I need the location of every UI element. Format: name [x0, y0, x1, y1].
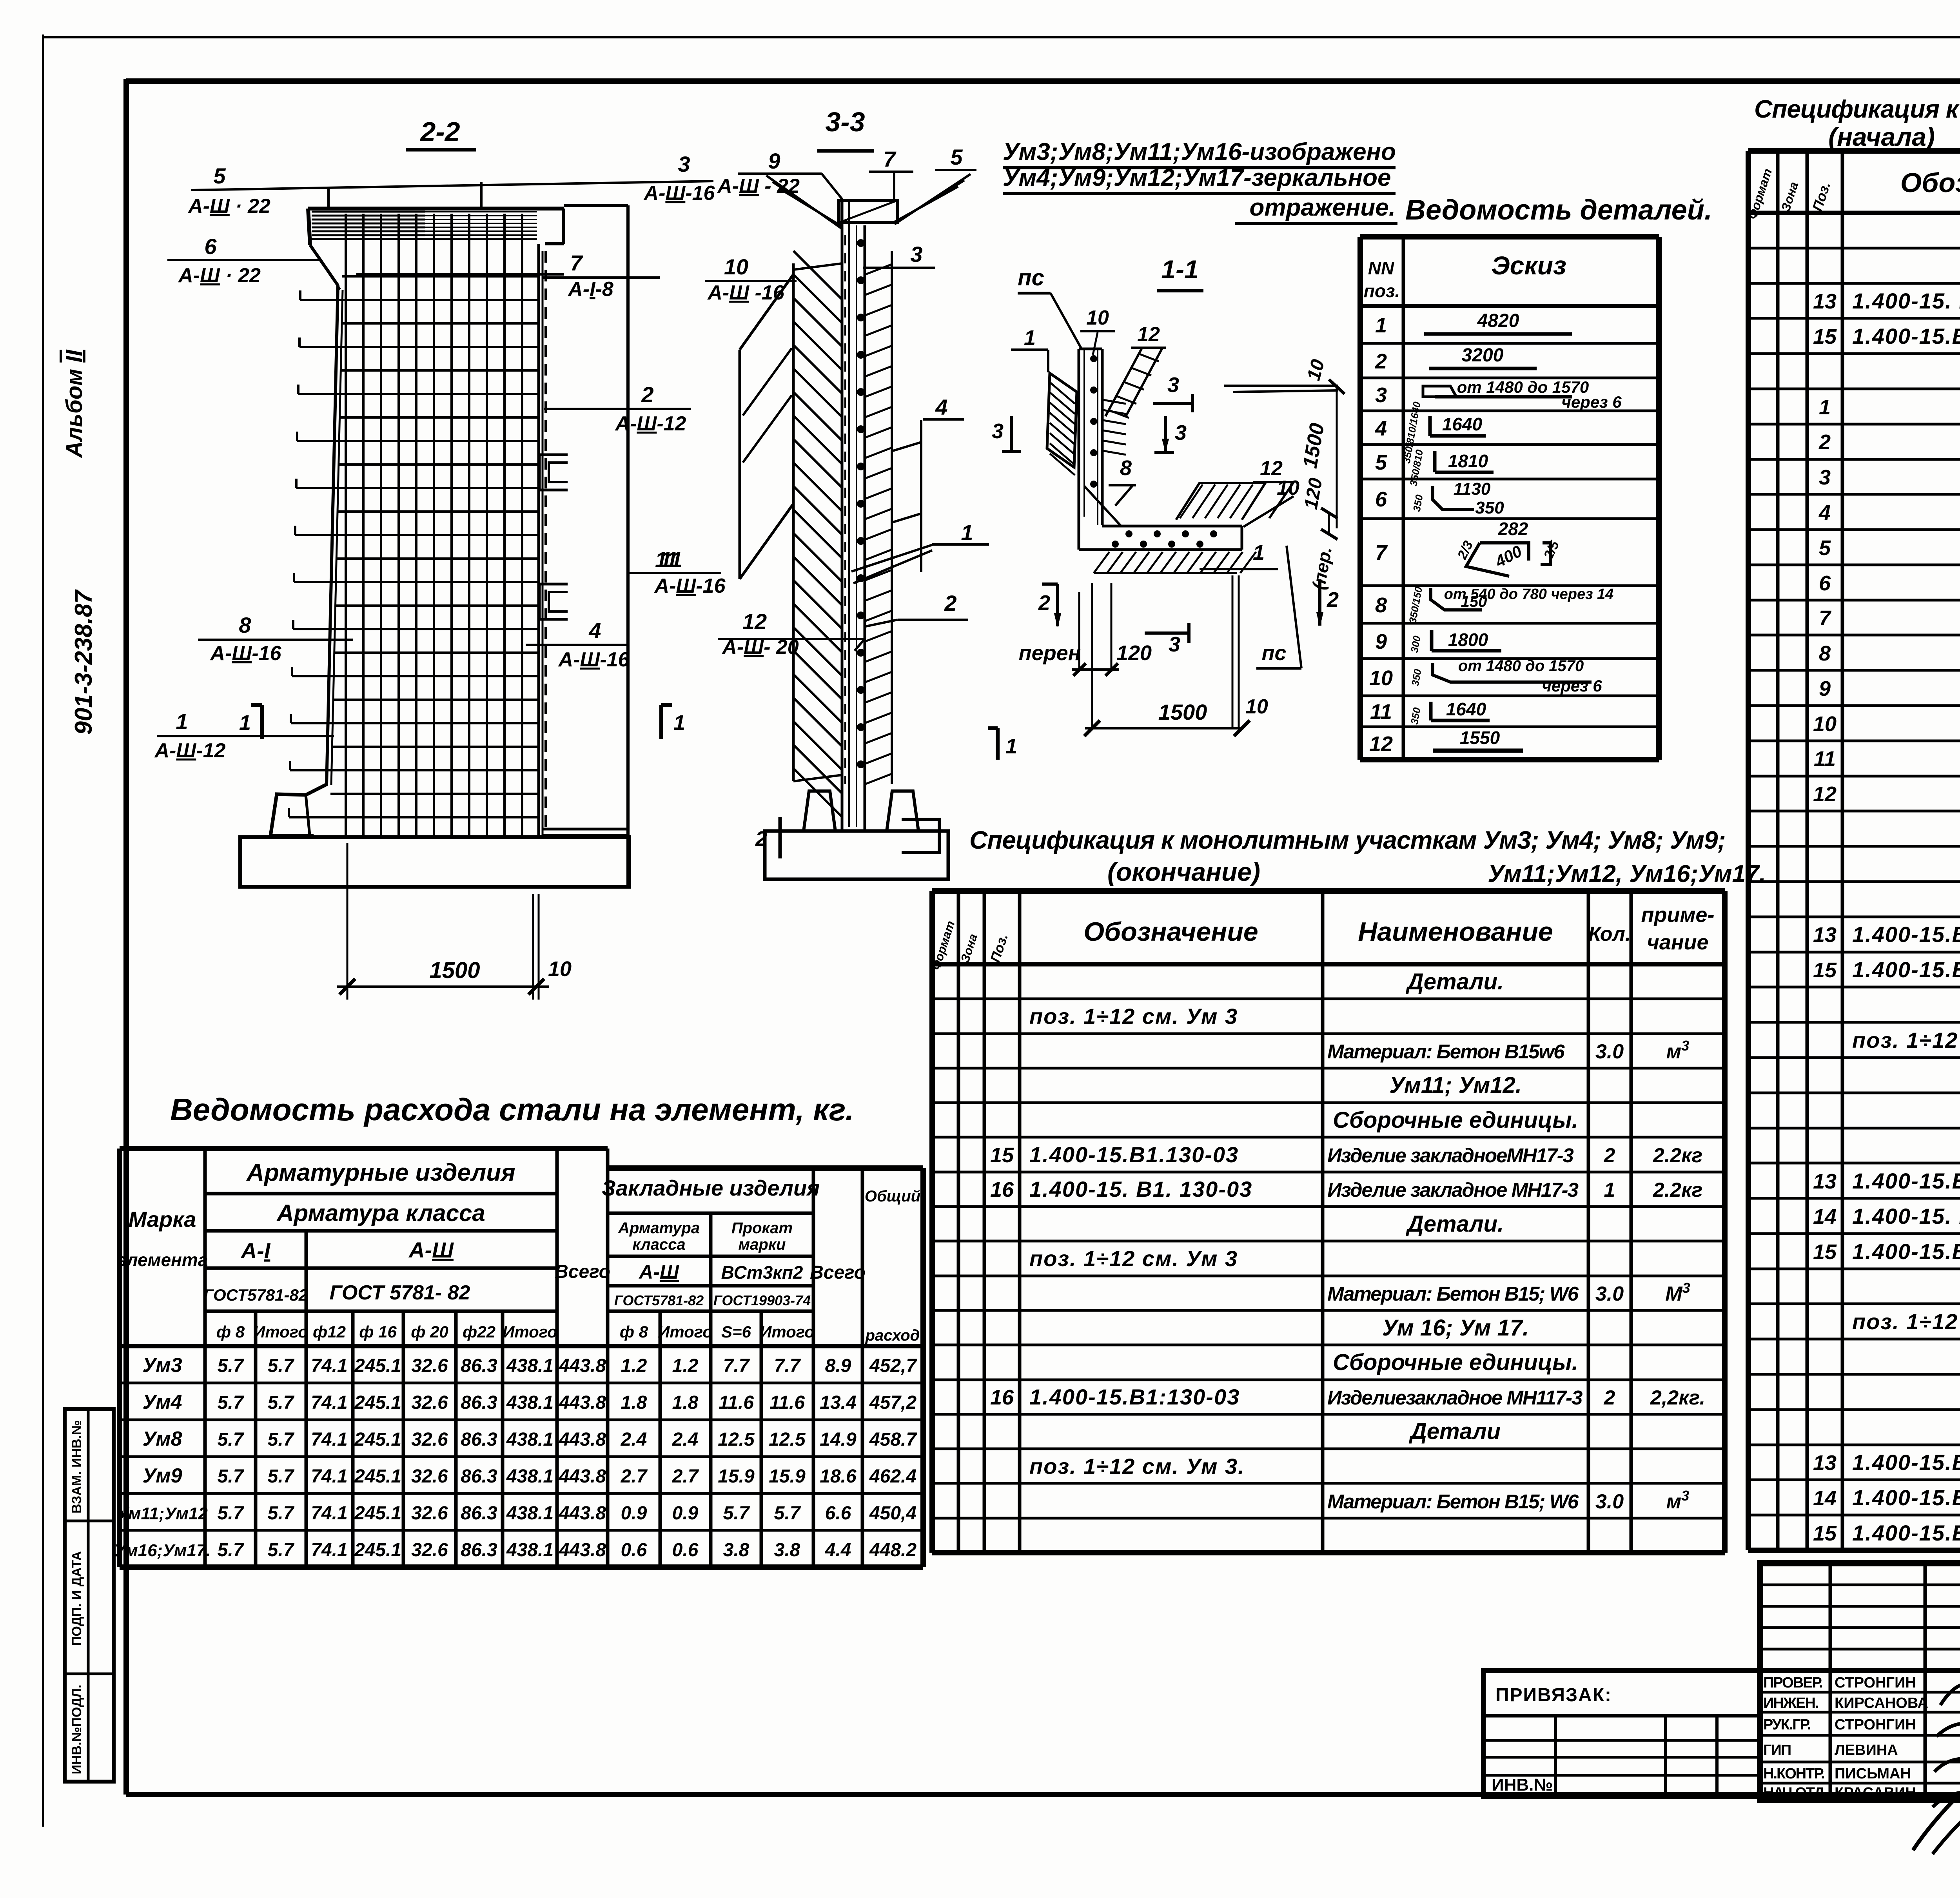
- svg-text:443.8: 443.8: [559, 1355, 606, 1376]
- svg-text:3.0: 3.0: [1595, 1283, 1624, 1305]
- svg-text:14.9: 14.9: [820, 1429, 857, 1450]
- svg-text:86.3: 86.3: [461, 1540, 497, 1560]
- svg-text:448.2: 448.2: [869, 1540, 916, 1560]
- svg-text:1.2: 1.2: [672, 1355, 699, 1376]
- svg-text:443.8: 443.8: [559, 1540, 606, 1560]
- svg-text:1: 1: [1253, 541, 1265, 564]
- svg-text:14: 14: [1813, 1205, 1837, 1228]
- svg-text:438.1: 438.1: [506, 1355, 554, 1376]
- svg-text:6: 6: [204, 234, 217, 259]
- svg-text:4: 4: [935, 395, 947, 419]
- svg-text:5.7: 5.7: [774, 1503, 801, 1524]
- svg-text:1.400-15.В1:130-03: 1.400-15.В1:130-03: [1029, 1384, 1240, 1409]
- svg-text:Итого: Итого: [658, 1323, 713, 1341]
- svg-text:отражение.: отражение.: [1249, 194, 1396, 221]
- svg-text:Арматура класса: Арматура класса: [276, 1200, 485, 1226]
- svg-text:2: 2: [1818, 430, 1831, 454]
- svg-text:Эскиз: Эскиз: [1491, 251, 1566, 280]
- svg-text:Изделиезакладное МН117-3: Изделиезакладное МН117-3: [1327, 1386, 1583, 1409]
- svg-text:марки: марки: [739, 1236, 786, 1253]
- svg-text:А-Ш- 20: А-Ш- 20: [721, 636, 799, 659]
- svg-text:Арматура: Арматура: [618, 1219, 700, 1237]
- svg-text:ИНВ.№: ИНВ.№: [1492, 1775, 1553, 1795]
- svg-text:10: 10: [548, 957, 572, 981]
- svg-text:11: 11: [1370, 700, 1392, 724]
- svg-text:74.1: 74.1: [311, 1503, 347, 1524]
- svg-text:NN: NN: [1368, 258, 1394, 278]
- svg-text:4: 4: [1375, 417, 1387, 440]
- svg-text:1.400-15.В1.130-32: 1.400-15.В1.130-32: [1852, 1450, 1960, 1475]
- svg-text:4.4: 4.4: [825, 1540, 851, 1560]
- svg-text:ф22: ф22: [463, 1323, 495, 1341]
- svg-text:450,4: 450,4: [869, 1503, 916, 1524]
- svg-text:2: 2: [1375, 350, 1387, 373]
- svg-text:13: 13: [1813, 923, 1837, 947]
- svg-text:901-3-238.87: 901-3-238.87: [70, 589, 97, 735]
- svg-text:Материал: Бетон В15; W6: Материал: Бетон В15; W6: [1327, 1283, 1579, 1305]
- svg-text:9: 9: [768, 149, 780, 173]
- svg-text:приме-: приме-: [1641, 903, 1715, 927]
- svg-text:12: 12: [1369, 732, 1393, 756]
- svg-text:15: 15: [1813, 325, 1837, 348]
- svg-text:438.1: 438.1: [506, 1429, 554, 1450]
- svg-text:Всего: Всего: [810, 1262, 866, 1283]
- svg-text:3.0: 3.0: [1595, 1040, 1624, 1063]
- svg-text:Марка: Марка: [129, 1207, 196, 1232]
- svg-text:5.7: 5.7: [268, 1540, 295, 1560]
- svg-text:32.6: 32.6: [411, 1503, 448, 1524]
- svg-text:Ум9: Ум9: [142, 1464, 182, 1487]
- svg-text:5.7: 5.7: [218, 1429, 245, 1450]
- svg-text:3: 3: [1175, 421, 1187, 445]
- svg-text:ГОСТ5781-82: ГОСТ5781-82: [614, 1292, 704, 1308]
- svg-text:Ум11;Ум12: Ум11;Ум12: [117, 1504, 208, 1523]
- svg-text:1800: 1800: [1448, 630, 1488, 650]
- svg-text:32.6: 32.6: [411, 1429, 448, 1450]
- svg-text:1.400-15.В1.130-03: 1.400-15.В1.130-03: [1852, 324, 1960, 348]
- svg-text:3-3: 3-3: [825, 107, 865, 137]
- svg-text:1.400-15. В1.120-26: 1.400-15. В1.120-26: [1852, 1204, 1960, 1228]
- svg-text:1.400-15.В1.130-03: 1.400-15.В1.130-03: [1852, 1239, 1960, 1264]
- svg-text:2: 2: [755, 827, 767, 851]
- svg-text:А-Ш-16: А-Ш-16: [558, 648, 630, 671]
- svg-text:12: 12: [1813, 782, 1837, 806]
- svg-text:5.7: 5.7: [268, 1466, 295, 1487]
- svg-text:9: 9: [1819, 677, 1831, 700]
- svg-text:245.1: 245.1: [354, 1466, 401, 1487]
- svg-text:3: 3: [992, 419, 1004, 443]
- svg-text:15.9: 15.9: [718, 1466, 755, 1487]
- svg-text:Арматурные изделия: Арматурные изделия: [246, 1159, 515, 1186]
- svg-text:1.8: 1.8: [672, 1392, 699, 1413]
- svg-text:Итого: Итого: [503, 1323, 557, 1341]
- svg-text:1.400-15.В1.130-32: 1.400-15.В1.130-32: [1852, 1169, 1960, 1193]
- svg-text:РУК.ГР.: РУК.ГР.: [1763, 1717, 1810, 1733]
- svg-text:150: 150: [1461, 593, 1487, 610]
- svg-text:А-Ш: А-Ш: [638, 1261, 679, 1283]
- svg-text:245.1: 245.1: [354, 1429, 401, 1450]
- svg-text:6.6: 6.6: [825, 1503, 851, 1524]
- svg-text:А-Ш · 22: А-Ш · 22: [178, 264, 261, 287]
- svg-text:15: 15: [1813, 1522, 1837, 1545]
- svg-text:7: 7: [883, 147, 897, 171]
- svg-text:Спецификация к монолитным учас: Спецификация к монолитным участкам Ум3; …: [969, 826, 1726, 854]
- svg-text:6: 6: [1375, 488, 1387, 511]
- svg-text:5: 5: [950, 145, 963, 169]
- svg-text:Н.КОНТР.: Н.КОНТР.: [1763, 1766, 1824, 1782]
- svg-text:12.5: 12.5: [769, 1429, 806, 1450]
- svg-text:86.3: 86.3: [461, 1392, 497, 1413]
- svg-text:КИРСАНОВА: КИРСАНОВА: [1835, 1695, 1928, 1711]
- svg-text:Детали: Детали: [1408, 1419, 1501, 1444]
- svg-text:Ум3: Ум3: [142, 1354, 182, 1377]
- svg-text:1: 1: [1819, 396, 1831, 419]
- svg-text:(начала): (начала): [1828, 122, 1935, 151]
- svg-text:СТРОНГИН: СТРОНГИН: [1835, 1675, 1916, 1691]
- svg-text:15: 15: [990, 1143, 1014, 1167]
- svg-text:Ум4: Ум4: [142, 1391, 182, 1414]
- svg-text:3.0: 3.0: [1595, 1490, 1624, 1513]
- svg-text:11.6: 11.6: [719, 1392, 754, 1413]
- svg-text:А-I: А-I: [240, 1238, 271, 1263]
- svg-text:ГОСТ19903-74: ГОСТ19903-74: [713, 1292, 811, 1308]
- svg-text:Ум 16; Ум 17.: Ум 16; Ум 17.: [1382, 1315, 1529, 1341]
- svg-text:ф 16: ф 16: [359, 1323, 397, 1341]
- svg-text:5: 5: [213, 163, 226, 188]
- svg-text:32.6: 32.6: [411, 1540, 448, 1560]
- svg-text:1.400-15.В1.120- 03: 1.400-15.В1.120- 03: [1852, 957, 1960, 982]
- svg-text:2: 2: [944, 591, 956, 615]
- svg-text:10: 10: [724, 254, 748, 279]
- svg-text:СТРОНГИН: СТРОНГИН: [1835, 1717, 1916, 1733]
- svg-text:245.1: 245.1: [354, 1503, 401, 1524]
- svg-text:ПИСЬМАН: ПИСЬМАН: [1835, 1766, 1911, 1782]
- svg-text:5.7: 5.7: [218, 1355, 245, 1376]
- svg-text:Наименование: Наименование: [1358, 917, 1553, 947]
- svg-text:от 1480 до 1570: от 1480 до 1570: [1458, 657, 1584, 675]
- svg-text:4: 4: [1818, 501, 1831, 524]
- svg-text:Материал: Бетон В15w6: Материал: Бетон В15w6: [1327, 1040, 1565, 1063]
- svg-text:1.400-15.В1.130-32: 1.400-15.В1.130-32: [1852, 922, 1960, 947]
- svg-text:2.2кг: 2.2кг: [1653, 1144, 1702, 1167]
- svg-text:443.8: 443.8: [559, 1429, 606, 1450]
- svg-text:452,7: 452,7: [869, 1355, 917, 1376]
- svg-text:11.6: 11.6: [769, 1392, 805, 1413]
- svg-text:перен: перен: [1019, 641, 1081, 665]
- svg-text:1-1: 1-1: [1161, 255, 1198, 284]
- svg-text:Общий: Общий: [865, 1188, 920, 1205]
- svg-text:86.3: 86.3: [461, 1466, 497, 1487]
- svg-text:457,2: 457,2: [869, 1392, 916, 1413]
- svg-text:11: 11: [1814, 747, 1836, 771]
- svg-text:12: 12: [742, 609, 767, 634]
- svg-text:10: 10: [1245, 695, 1268, 718]
- svg-text:поз.: поз.: [1364, 281, 1400, 301]
- svg-text:1: 1: [176, 709, 188, 734]
- svg-text:8: 8: [239, 613, 251, 637]
- svg-text:1: 1: [1024, 326, 1036, 350]
- svg-text:Материал: Бетон В15; W6: Материал: Бетон В15; W6: [1327, 1490, 1579, 1513]
- svg-text:458.7: 458.7: [869, 1429, 917, 1450]
- svg-text:Итого: Итого: [253, 1323, 308, 1341]
- svg-text:282: 282: [1498, 519, 1528, 539]
- svg-text:5.7: 5.7: [218, 1392, 245, 1413]
- svg-text:14: 14: [1813, 1486, 1837, 1510]
- svg-text:пс: пс: [1261, 641, 1286, 665]
- svg-text:ИНВ.№ПОДЛ.: ИНВ.№ПОДЛ.: [69, 1685, 84, 1775]
- svg-text:ПОДП. И ДАТА: ПОДП. И ДАТА: [69, 1551, 84, 1646]
- svg-text:443.8: 443.8: [559, 1392, 606, 1413]
- svg-text:4: 4: [588, 618, 601, 643]
- svg-text:поз. 1÷12 см. Ум 3.: поз. 1÷12 см. Ум 3.: [1029, 1454, 1245, 1479]
- svg-text:350: 350: [1475, 498, 1504, 517]
- svg-text:15: 15: [1813, 1240, 1837, 1264]
- svg-text:5.7: 5.7: [218, 1466, 245, 1487]
- svg-text:Изделие закладноеМН17-3: Изделие закладноеМН17-3: [1327, 1144, 1573, 1167]
- svg-text:3200: 3200: [1462, 345, 1504, 366]
- svg-text:1: 1: [239, 711, 251, 735]
- svg-text:Обозначение: Обозначение: [1900, 167, 1960, 198]
- svg-text:12.5: 12.5: [718, 1429, 755, 1450]
- svg-text:5: 5: [1375, 451, 1387, 474]
- svg-text:Закладные изделия: Закладные изделия: [602, 1176, 820, 1200]
- svg-text:Детали.: Детали.: [1405, 1211, 1504, 1237]
- svg-text:5.7: 5.7: [218, 1540, 245, 1560]
- svg-text:поз. 1÷12 см. Ум3: поз. 1÷12 см. Ум3: [1852, 1028, 1960, 1052]
- svg-text:2: 2: [1327, 588, 1339, 611]
- svg-text:1640: 1640: [1442, 414, 1483, 434]
- svg-text:5.7: 5.7: [268, 1355, 295, 1376]
- svg-text:0.6: 0.6: [621, 1540, 647, 1560]
- svg-text:через 6: через 6: [1542, 677, 1602, 695]
- svg-text:3.8: 3.8: [774, 1540, 800, 1560]
- svg-text:ф 8: ф 8: [620, 1323, 648, 1341]
- svg-text:ВЗАМ. ИНВ.№: ВЗАМ. ИНВ.№: [69, 1420, 84, 1513]
- svg-text:1130: 1130: [1454, 479, 1491, 499]
- svg-text:ф 8: ф 8: [216, 1323, 245, 1341]
- svg-text:2: 2: [1604, 1144, 1615, 1167]
- svg-text:3: 3: [1375, 383, 1387, 407]
- svg-text:расход: расход: [865, 1327, 920, 1344]
- svg-text:7: 7: [1819, 606, 1832, 630]
- svg-text:1500: 1500: [429, 958, 480, 983]
- svg-text:ИНЖЕН.: ИНЖЕН.: [1763, 1695, 1818, 1711]
- svg-text:1.400-15.В1.130-03: 1.400-15.В1.130-03: [1029, 1142, 1239, 1167]
- svg-text:443.8: 443.8: [559, 1466, 606, 1487]
- svg-text:245.1: 245.1: [354, 1355, 401, 1376]
- svg-text:Ум4;Ум9;Ум12;Ум17-зеркальное: Ум4;Ум9;Ум12;Ум17-зеркальное: [1003, 164, 1391, 191]
- svg-text:16: 16: [990, 1386, 1014, 1409]
- svg-text:3: 3: [910, 242, 922, 267]
- svg-text:1810: 1810: [1448, 451, 1488, 471]
- svg-text:1: 1: [1375, 314, 1387, 337]
- svg-text:1.400-15. В1. 130-32: 1.400-15. В1. 130-32: [1852, 289, 1960, 313]
- svg-text:13.4: 13.4: [820, 1392, 856, 1413]
- svg-text:2: 2: [641, 382, 653, 407]
- svg-text:Ум8: Ум8: [142, 1428, 182, 1450]
- svg-text:245.1: 245.1: [354, 1540, 401, 1560]
- svg-text:2.7: 2.7: [672, 1466, 699, 1487]
- svg-text:443.8: 443.8: [559, 1503, 606, 1524]
- svg-text:2.4: 2.4: [621, 1429, 647, 1450]
- svg-text:А-Ш-16: А-Ш-16: [210, 642, 282, 665]
- svg-text:7.7: 7.7: [723, 1355, 750, 1376]
- svg-text:А-Ш - 22: А-Ш - 22: [717, 175, 800, 198]
- svg-text:класса: класса: [632, 1236, 685, 1253]
- svg-text:5: 5: [1819, 536, 1831, 560]
- svg-text:245.1: 245.1: [354, 1392, 401, 1413]
- svg-text:ПРИВЯЗАК:: ПРИВЯЗАК:: [1495, 1685, 1612, 1706]
- svg-text:1.400-15. В1. 130-03: 1.400-15. В1. 130-03: [1029, 1177, 1252, 1201]
- svg-text:7: 7: [570, 250, 583, 275]
- svg-text:(окончание): (окончание): [1107, 857, 1260, 886]
- svg-text:Ум11;Ум12, Ум16;Ум17.: Ум11;Ум12, Ум16;Ум17.: [1488, 860, 1766, 887]
- svg-text:1640: 1640: [1446, 699, 1486, 719]
- svg-text:1: 1: [1604, 1179, 1615, 1201]
- svg-text:10: 10: [1277, 477, 1299, 499]
- svg-text:2.4: 2.4: [672, 1429, 699, 1450]
- svg-text:3: 3: [1819, 466, 1831, 489]
- svg-text:элемента: элемента: [117, 1250, 208, 1270]
- svg-text:74.1: 74.1: [311, 1392, 347, 1413]
- svg-text:4820: 4820: [1477, 310, 1519, 331]
- svg-text:S=6: S=6: [721, 1323, 751, 1341]
- svg-text:8: 8: [1819, 642, 1831, 665]
- svg-text:Спецификация к монолитным учас: Спецификация к монолитным участкам Ум3; …: [1754, 95, 1960, 123]
- svg-text:Альбом II: Альбом II: [62, 349, 87, 459]
- svg-text:1: 1: [961, 520, 973, 545]
- svg-text:120: 120: [1116, 641, 1152, 665]
- svg-text:поз. 1÷12 см. Ум 3: поз. 1÷12 см. Ум 3: [1029, 1246, 1238, 1271]
- svg-text:А-Ш -16: А-Ш -16: [707, 281, 784, 304]
- svg-text:А-Ш-12: А-Ш-12: [615, 412, 686, 435]
- svg-text:5.7: 5.7: [218, 1503, 245, 1524]
- svg-text:32.6: 32.6: [411, 1392, 448, 1413]
- svg-text:32.6: 32.6: [411, 1355, 448, 1376]
- svg-text:Прокат: Прокат: [731, 1219, 793, 1237]
- svg-text:Всего: Всего: [555, 1261, 610, 1282]
- svg-text:2.7: 2.7: [621, 1466, 648, 1487]
- svg-text:А-Ш-16: А-Ш-16: [654, 575, 726, 597]
- svg-text:15.9: 15.9: [769, 1466, 806, 1487]
- svg-text:3: 3: [1169, 633, 1180, 656]
- svg-text:2-2: 2-2: [419, 116, 460, 147]
- svg-text:5.7: 5.7: [268, 1429, 295, 1450]
- svg-text:Изделие закладное МН17-3: Изделие закладное МН17-3: [1327, 1179, 1579, 1201]
- svg-text:Ум16;Ум17.: Ум16;Ум17.: [114, 1541, 211, 1560]
- svg-text:18.6: 18.6: [820, 1466, 857, 1487]
- svg-text:поз. 1÷12 см. Ум 3: поз. 1÷12 см. Ум 3: [1029, 1004, 1238, 1029]
- svg-text:Ведомость расхода стали на эле: Ведомость расхода стали на элемент, кг.: [170, 1092, 854, 1127]
- svg-text:0.6: 0.6: [672, 1540, 699, 1560]
- svg-text:13: 13: [1813, 290, 1837, 313]
- svg-text:Ум11; Ум12.: Ум11; Ум12.: [1389, 1072, 1522, 1098]
- svg-text:7.7: 7.7: [774, 1355, 801, 1376]
- svg-text:1.400-15.В1.120-26: 1.400-15.В1.120-26: [1852, 1485, 1960, 1510]
- svg-text:5.7: 5.7: [268, 1503, 295, 1524]
- svg-text:2: 2: [1604, 1386, 1615, 1409]
- svg-text:А-I-8: А-I-8: [567, 278, 613, 301]
- svg-text:8: 8: [1120, 456, 1132, 480]
- svg-text:0.9: 0.9: [672, 1503, 699, 1524]
- svg-text:8.9: 8.9: [825, 1355, 851, 1376]
- svg-text:1.8: 1.8: [621, 1392, 647, 1413]
- svg-text:ЛЕВИНА: ЛЕВИНА: [1835, 1742, 1898, 1758]
- svg-text:ф12: ф12: [313, 1323, 346, 1341]
- svg-text:86.3: 86.3: [461, 1355, 497, 1376]
- svg-text:1550: 1550: [1460, 728, 1500, 748]
- svg-text:10: 10: [1369, 666, 1393, 690]
- svg-text:А-Ш-12: А-Ш-12: [154, 739, 226, 762]
- svg-text:1500: 1500: [1158, 700, 1207, 724]
- svg-text:1: 1: [673, 711, 685, 735]
- svg-text:А-Ш-16: А-Ш-16: [643, 182, 715, 205]
- svg-text:438.1: 438.1: [506, 1503, 554, 1524]
- svg-text:5.7: 5.7: [723, 1503, 750, 1524]
- svg-text:9: 9: [1375, 630, 1387, 653]
- svg-text:1: 1: [1005, 735, 1017, 758]
- svg-text:86.3: 86.3: [461, 1429, 497, 1450]
- svg-text:462.4: 462.4: [869, 1466, 916, 1487]
- svg-text:КРАСАВИН: КРАСАВИН: [1835, 1785, 1916, 1801]
- svg-text:Ведомость деталей.: Ведомость деталей.: [1405, 194, 1712, 226]
- svg-text:86.3: 86.3: [461, 1503, 497, 1524]
- svg-text:ГОСТ 5781- 82: ГОСТ 5781- 82: [330, 1281, 470, 1304]
- svg-text:1.2: 1.2: [621, 1355, 647, 1376]
- svg-text:5.7: 5.7: [268, 1392, 295, 1413]
- svg-text:12: 12: [1137, 323, 1160, 346]
- svg-text:Ум3;Ум8;Ум11;Ум16-изображено: Ум3;Ум8;Ум11;Ум16-изображено: [1003, 138, 1396, 165]
- svg-text:А-Ш: А-Ш: [408, 1238, 454, 1262]
- svg-text:15: 15: [1813, 958, 1837, 982]
- svg-text:7: 7: [1375, 541, 1388, 564]
- svg-text:Сборочные единицы.: Сборочные единицы.: [1333, 1350, 1578, 1375]
- svg-text:ГОСТ5781-82: ГОСТ5781-82: [203, 1286, 308, 1304]
- svg-text:10: 10: [1086, 307, 1109, 329]
- svg-text:Сборочные единицы.: Сборочные единицы.: [1333, 1107, 1578, 1133]
- svg-text:438.1: 438.1: [506, 1392, 554, 1413]
- svg-text:чание: чание: [1647, 931, 1708, 954]
- svg-text:438.1: 438.1: [506, 1466, 554, 1487]
- svg-text:ГИП: ГИП: [1763, 1742, 1791, 1758]
- svg-text:74.1: 74.1: [311, 1466, 347, 1487]
- svg-text:10: 10: [1813, 712, 1837, 736]
- svg-text:438.1: 438.1: [506, 1540, 554, 1560]
- svg-text:1.400-15.В1.130-03: 1.400-15.В1.130-03: [1852, 1521, 1960, 1545]
- svg-text:74.1: 74.1: [311, 1355, 347, 1376]
- svg-text:13: 13: [1813, 1170, 1837, 1193]
- svg-text:74.1: 74.1: [311, 1540, 347, 1560]
- svg-text:ф 20: ф 20: [411, 1323, 448, 1341]
- svg-text:0.9: 0.9: [621, 1503, 647, 1524]
- svg-text:ВСт3кп2: ВСт3кп2: [721, 1262, 803, 1283]
- svg-text:8: 8: [1375, 593, 1387, 617]
- svg-text:Детали.: Детали.: [1405, 969, 1504, 994]
- svg-text:пс: пс: [1018, 265, 1044, 290]
- svg-text:32.6: 32.6: [411, 1466, 448, 1487]
- svg-text:Обозначение: Обозначение: [1083, 917, 1258, 947]
- svg-text:16: 16: [990, 1178, 1014, 1201]
- svg-text:74.1: 74.1: [311, 1429, 347, 1450]
- svg-text:поз. 1÷12 см. УМ 3.: поз. 1÷12 см. УМ 3.: [1852, 1309, 1960, 1334]
- svg-text:2.2кг: 2.2кг: [1653, 1179, 1702, 1201]
- svg-text:2: 2: [1038, 591, 1050, 615]
- svg-text:2,2кг.: 2,2кг.: [1650, 1386, 1705, 1409]
- svg-text:3: 3: [1167, 373, 1179, 397]
- svg-text:6: 6: [1819, 572, 1831, 595]
- svg-text:Итого: Итого: [760, 1323, 815, 1341]
- svg-text:через 6: через 6: [1561, 393, 1622, 411]
